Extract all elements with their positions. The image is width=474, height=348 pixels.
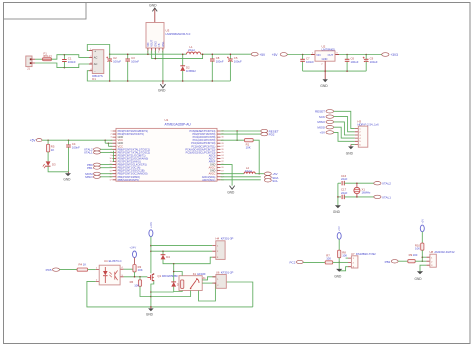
U1 right pin stubs [217, 131, 221, 180]
wire L2 to +5V flag [255, 173, 264, 175]
wire SCL row [221, 179, 261, 181]
svg-text:100uF: 100uF [351, 60, 359, 64]
wire R7 to U7 [333, 261, 348, 263]
wire LED to gnd rail [48, 166, 68, 172]
svg-text:1K: 1K [83, 262, 87, 266]
net flag XTAL1 [374, 195, 381, 198]
svg-text:+3V3: +3V3 [390, 53, 398, 57]
junction [109, 53, 111, 55]
diode D2 1N5822 [182, 54, 184, 65]
svg-text:25: 25 [221, 152, 223, 154]
svg-text:GND: GND [320, 84, 328, 88]
optocoupler U4 EL357N [96, 269, 124, 281]
pin stubs J1 [32, 58, 35, 60]
capacitor C5 [229, 54, 231, 59]
svg-text:VIN: VIN [147, 42, 150, 46]
svg-text:23: 23 [221, 158, 223, 160]
svg-text:24: 24 [221, 155, 223, 157]
ground arrow U1 [230, 186, 235, 190]
net flag SDA [264, 176, 271, 179]
connector U6 [212, 277, 216, 283]
svg-text:10K: 10K [134, 283, 139, 287]
svg-text:17: 17 [109, 179, 111, 181]
wire opto cathode down to gnd rail [87, 281, 253, 307]
resistor R8 [338, 250, 341, 258]
svg-text:FB: FB [158, 43, 161, 47]
junction [212, 53, 214, 55]
wire R9 to U8 [415, 260, 426, 262]
svg-text:26: 26 [221, 149, 223, 151]
junction [258, 173, 260, 175]
wire C1 bottom to bridge AC2 [64, 64, 89, 68]
svg-text:100: 100 [413, 253, 418, 257]
svg-text:-: - [94, 69, 95, 73]
wire U7 pin1 stub [346, 257, 348, 259]
net flag +5V avcc [264, 172, 271, 175]
svg-text:A1: A1 [203, 277, 207, 280]
capacitor C8 [211, 54, 213, 59]
svg-text:GND: GND [415, 277, 423, 281]
wire +5V to R8 [338, 239, 340, 250]
svg-text:PB5(SCK/PCINT5): PB5(SCK/PCINT5) [118, 179, 139, 182]
svg-text:VIN: VIN [316, 53, 320, 57]
svg-text:GND: GND [333, 210, 341, 214]
svg-text:+5V: +5V [320, 131, 325, 135]
diode D4 flyback [162, 251, 164, 255]
capacitor C4 [68, 140, 70, 145]
wire to U8 pin1 [422, 256, 426, 258]
wire U2 GND down [324, 61, 326, 71]
svg-text:100nF: 100nF [68, 60, 76, 64]
svg-text:22: 22 [221, 161, 223, 163]
svg-text:IRF3205PBF: IRF3205PBF [162, 274, 178, 278]
svg-text:PC2: PC2 [290, 261, 296, 265]
capacitor C6 [346, 55, 348, 60]
net flag XTAL2 [374, 182, 381, 185]
junction [109, 80, 111, 82]
svg-text:GND: GND [146, 313, 154, 317]
svg-text:11: 11 [110, 161, 112, 163]
junction [338, 262, 340, 264]
svg-text:PD2: PD2 [269, 132, 275, 136]
junction [422, 256, 424, 258]
wire opto emitter gate line [124, 276, 148, 278]
svg-text:+: + [94, 49, 96, 53]
svg-text:28: 28 [221, 143, 223, 145]
junction [162, 250, 164, 252]
capacitor C16 [342, 181, 344, 185]
svg-text:100uF: 100uF [113, 60, 121, 64]
wire R3 to gate line [134, 272, 136, 277]
svg-text:ADC5(SCL): ADC5(SCL) [202, 179, 215, 182]
junction [356, 182, 358, 184]
capacitor C2 [109, 54, 111, 59]
capacitor C17 [342, 195, 344, 199]
junction [150, 291, 152, 293]
junction [230, 53, 232, 55]
wire U3 GND pin to bottom rail [162, 51, 164, 82]
svg-text:GND: GND [158, 89, 166, 93]
wire R4 to opto [88, 269, 96, 271]
ground symbol sensor B [417, 271, 423, 274]
wire xtal gnd leg [337, 183, 339, 205]
svg-text:KF301-3P: KF301-3P [221, 237, 234, 241]
main +rail wire [110, 53, 187, 55]
ground symbol sensor A [338, 269, 340, 271]
ground symbol xtal [335, 205, 341, 208]
svg-text:22pF: 22pF [341, 191, 348, 195]
svg-text:1N5822: 1N5822 [186, 69, 196, 73]
wire R1 to +5V line [253, 140, 259, 174]
svg-text:MISO: MISO [85, 175, 93, 179]
svg-text:16MHz: 16MHz [362, 191, 371, 195]
svg-text:XTAL1: XTAL1 [382, 195, 391, 199]
wire xtal top right [344, 182, 374, 184]
wire input to R9 [398, 260, 408, 262]
diode D5 relay flyback [173, 264, 175, 282]
wire U6 to bottom rail [226, 282, 253, 307]
svg-text:GND: GND [322, 57, 328, 61]
svg-text:XTAL1: XTAL1 [84, 151, 93, 155]
svg-text:+5V: +5V [30, 139, 37, 143]
ground symbol bottom left [150, 307, 152, 309]
wire D5 bottom [173, 287, 175, 292]
junction [150, 245, 152, 247]
title block rectangle [4, 3, 87, 20]
svg-text:GND: GND [149, 4, 157, 8]
junction [173, 263, 175, 265]
wire D4 to connector pin3 [163, 257, 212, 264]
wire PD2 row [221, 133, 261, 135]
junction [162, 80, 164, 82]
net flag +5V output [251, 52, 258, 56]
resistor R9 [408, 260, 415, 263]
wire relay common to rail [199, 283, 216, 301]
LED D3 [47, 152, 49, 162]
wire opto collector [124, 268, 135, 270]
svg-text:10: 10 [109, 158, 111, 160]
svg-text:D4: D4 [166, 255, 170, 259]
junction [215, 282, 217, 284]
svg-text:100uF: 100uF [370, 60, 378, 64]
svg-text:+5V: +5V [259, 53, 266, 57]
connector J1 [26, 56, 32, 67]
ISP staircase wires [334, 111, 355, 128]
wire R6 to source rail [140, 286, 151, 296]
svg-text:4: 4 [158, 52, 160, 54]
wire relay contact to U6 [202, 282, 216, 284]
wire C1 top to bridge AC1 [64, 55, 89, 58]
wire U3 pin3 stub [154, 51, 156, 59]
svg-text:19: 19 [221, 170, 223, 172]
sensor U7 DS18B20 [348, 258, 351, 267]
svg-text:RESET: RESET [315, 110, 325, 114]
svg-text:22uH: 22uH [188, 48, 195, 52]
svg-text:U8: U8 [430, 250, 434, 254]
wire relay coil return rail B [151, 291, 191, 297]
svg-text:+24V: +24V [149, 222, 153, 228]
inductor L2 [244, 172, 255, 174]
svg-text:U4: U4 [104, 259, 108, 263]
ISP ground wire [351, 144, 355, 146]
wire bridge plus to top rail [87, 45, 109, 55]
wire AVCC row [221, 173, 245, 175]
wire input to R4 [60, 269, 78, 271]
svg-text:27: 27 [221, 146, 223, 148]
svg-text:HDR-F-2.54_1x6: HDR-F-2.54_1x6 [358, 123, 380, 127]
svg-text:GND: GND [227, 191, 235, 195]
svg-text:+5V: +5V [272, 53, 279, 57]
resistor R1 [245, 139, 254, 142]
wire rail2 to connector pin2 [151, 250, 212, 252]
net flag +3V3 [382, 53, 389, 57]
resistor R3 [134, 258, 136, 265]
svg-text:XTAL2: XTAL2 [382, 182, 391, 186]
svg-text:9: 9 [111, 155, 112, 157]
svg-text:U6: U6 [216, 270, 220, 274]
wire source rail A [151, 291, 174, 293]
net flag PD2 [261, 132, 268, 135]
wire xtal top [338, 182, 341, 184]
svg-text:AC: AC [94, 56, 98, 60]
svg-text:MISO: MISO [317, 120, 325, 124]
wire U2 output rail [339, 54, 382, 56]
resistor R7 [325, 261, 333, 264]
svg-text:KF301-2P: KF301-2P [221, 270, 234, 274]
wire J1 lower to node [35, 63, 64, 68]
svg-text:SCK: SCK [319, 115, 325, 119]
svg-text:J1: J1 [27, 67, 30, 71]
svg-text:2: 2 [321, 63, 323, 65]
svg-text:10K: 10K [138, 268, 143, 272]
fuse F1 [43, 58, 52, 61]
svg-text:PB1: PB1 [87, 166, 93, 170]
capacitor C1 [63, 55, 65, 60]
U1 left pin stubs [113, 131, 117, 180]
svg-text:10uH: 10uH [245, 169, 252, 173]
wire mosfet source down [151, 281, 154, 307]
svg-text:GND: GND [154, 41, 157, 47]
svg-text:20: 20 [221, 167, 223, 169]
svg-text:BTD-1Y: BTD-1Y [44, 55, 53, 58]
svg-text:LM2596MHVR-5.0: LM2596MHVR-5.0 [166, 32, 191, 36]
svg-text:GND: GND [63, 178, 71, 182]
wire +24V vertical [150, 237, 152, 274]
ground symbol ISP [348, 146, 354, 149]
svg-text:LM78M05: LM78M05 [322, 47, 336, 51]
wire R10 down [421, 250, 423, 261]
wire +5V rail to U1 [42, 139, 113, 141]
svg-text:PB2: PB2 [385, 260, 391, 264]
svg-text:100nF: 100nF [72, 146, 80, 150]
crystal X1 [356, 183, 358, 187]
wire U3 VIN to rail [147, 51, 149, 55]
svg-text:PD5: PD5 [46, 268, 52, 272]
junction [346, 54, 348, 56]
wire bridge minus to bottom rail [87, 71, 230, 81]
svg-text:10K: 10K [342, 254, 347, 258]
ground symbol LDO [324, 71, 326, 79]
regulator U2 LM78M05 [311, 54, 339, 56]
ground symbol mcu left [68, 172, 70, 173]
wire reset pullup branch [236, 131, 238, 140]
junction [134, 276, 136, 278]
svg-text:MOSI: MOSI [317, 126, 325, 130]
svg-text:3: 3 [111, 137, 112, 139]
svg-text:2: 2 [111, 134, 112, 136]
svg-text:GND: GND [334, 275, 342, 279]
wire J1 to fuse [35, 58, 43, 60]
svg-text:H4: H4 [216, 237, 220, 241]
junction [302, 54, 304, 56]
svg-text:ON/-: ON/- [162, 41, 165, 46]
svg-text:AC: AC [94, 62, 98, 66]
wire relay coil bottom to D5 [174, 291, 183, 292]
junction [236, 130, 238, 132]
svg-text:HF46F: HF46F [197, 272, 206, 276]
svg-text:U7: U7 [351, 252, 355, 256]
junction [108, 142, 110, 144]
wire SDA row [221, 176, 261, 178]
svg-text:100nF: 100nF [306, 60, 314, 64]
wire LDO ground rail [303, 70, 367, 72]
resistor R4 [77, 268, 88, 271]
junction [324, 70, 326, 72]
wire fuse to node [52, 55, 65, 60]
svg-text:K1: K1 [193, 272, 197, 276]
junction [202, 53, 204, 55]
svg-text:GND: GND [346, 151, 354, 155]
wire rail1 to connector pin1 [151, 245, 212, 247]
wire U1 gnd row to ground [221, 165, 233, 186]
connector H4 output [212, 246, 216, 258]
wire xtal bottom [338, 196, 341, 198]
wire reset row [221, 130, 261, 132]
wire stray vertical [112, 151, 114, 162]
svg-text:100uF: 100uF [234, 60, 242, 64]
wire R8 down [338, 258, 340, 269]
sensor U8 AM2302 [426, 257, 430, 265]
junction [127, 53, 129, 55]
svg-text:+5V: +5V [420, 219, 424, 224]
header H3 [355, 129, 359, 145]
svg-text:AM2302-DHT22: AM2302-DHT22 [434, 250, 455, 254]
svg-text:14: 14 [109, 170, 111, 172]
resistor R10 [421, 243, 424, 250]
MCU U1 ATMEGA328P-AU [116, 128, 217, 181]
svg-text:1K: 1K [51, 148, 55, 152]
svg-text:D3: D3 [52, 163, 56, 167]
resistor R6 gate pulldown [139, 277, 141, 280]
capacitor C3 [127, 54, 129, 59]
inductor L1 [187, 52, 201, 54]
wire U7 gnd pin [339, 267, 348, 271]
wire VCC bracket 1 [104, 140, 106, 143]
svg-text:ATMEGA328P-AU: ATMEGA328P-AU [165, 122, 192, 126]
capacitor C9 [365, 55, 367, 60]
wire VCC bracket 2 [107, 143, 109, 146]
svg-text:10K: 10K [246, 146, 251, 150]
junction [47, 139, 49, 141]
svg-text:+24V: +24V [129, 245, 136, 249]
net flag RESET [261, 129, 268, 132]
svg-text:+5V: +5V [337, 226, 341, 231]
svg-text:30: 30 [221, 137, 223, 139]
wire U3 VOUT line [152, 51, 203, 59]
wire xtal bottom right [344, 196, 374, 198]
svg-text:DS18B20-TO92: DS18B20-TO92 [356, 252, 376, 256]
mosfet Q1 [147, 275, 150, 280]
svg-text:VOUT: VOUT [151, 39, 154, 46]
wire +5V to R10 [421, 232, 423, 243]
wire relay coil top [174, 272, 183, 276]
wire U8 gnd pin [420, 265, 426, 271]
svg-text:SCL: SCL [272, 179, 278, 183]
junction [64, 54, 66, 56]
svg-text:100nF: 100nF [131, 60, 139, 64]
svg-text:EL357N-C: EL357N-C [109, 259, 122, 263]
resistor R5 [47, 140, 49, 144]
regulator U3 LM2596 [146, 23, 164, 49]
svg-text:OUT: OUT [328, 53, 334, 57]
wire input to R7 [303, 261, 325, 263]
svg-text:1: 1 [111, 131, 112, 133]
svg-text:100: 100 [326, 256, 331, 260]
junction [182, 53, 184, 55]
bridge rectifier D1 DB107S [92, 50, 104, 74]
net flag SCL [264, 179, 271, 182]
svg-text:10K: 10K [415, 247, 420, 251]
wire +5V to U2 VIN [287, 54, 311, 56]
junction [356, 196, 358, 198]
svg-text:22pF: 22pF [341, 177, 348, 181]
svg-text:100nF: 100nF [216, 60, 224, 64]
ground symbol under U3 [162, 81, 164, 84]
capacitor C7 [302, 55, 304, 60]
svg-text:R6: R6 [130, 280, 134, 284]
relay K1 [179, 276, 202, 291]
